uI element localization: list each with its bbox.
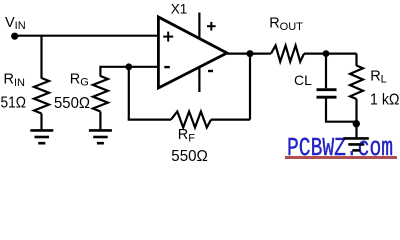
power plus sign xyxy=(207,22,216,31)
svg-text:ROUT: ROUT xyxy=(269,15,303,32)
node load junction dot xyxy=(353,120,360,127)
svg-text:RIN: RIN xyxy=(4,72,26,89)
svg-text:550Ω: 550Ω xyxy=(171,148,208,165)
capacitor CL top plate xyxy=(317,88,337,91)
watermark PCBWZ.com xyxy=(287,139,393,158)
svg-text:1 kΩ: 1 kΩ xyxy=(370,91,400,108)
op-amp X1 triangle xyxy=(158,17,227,88)
op-amp - input sign xyxy=(164,66,170,68)
resistor R_L xyxy=(350,66,363,100)
ground for R_IN xyxy=(30,130,53,143)
svg-text:CL: CL xyxy=(294,72,312,88)
wire R_OUT to load corner xyxy=(304,52,357,54)
power pin top xyxy=(198,13,200,39)
svg-text:550Ω: 550Ω xyxy=(54,95,90,112)
svg-text:RG: RG xyxy=(70,71,89,88)
svg-text:VIN: VIN xyxy=(5,15,26,32)
watermark red underline xyxy=(285,156,397,158)
wire feedback bottom left segment xyxy=(128,118,171,120)
wire CL top xyxy=(325,54,327,89)
svg-text:RF: RF xyxy=(178,127,195,144)
op-amp + input sign xyxy=(163,32,173,42)
power minus sign xyxy=(208,70,213,72)
resistor R_OUT xyxy=(271,46,304,62)
svg-text:51Ω: 51Ω xyxy=(1,94,27,111)
ground for load xyxy=(343,138,369,150)
resistor R_F xyxy=(171,112,211,128)
wire CL bottom xyxy=(326,99,356,122)
svg-text:RL: RL xyxy=(370,68,387,85)
resistor R_IN xyxy=(34,78,49,114)
node inverting input junction dot xyxy=(125,63,132,70)
wire to R_L top xyxy=(355,54,357,66)
wire feedback left vertical xyxy=(128,67,130,120)
capacitor CL bottom plate xyxy=(317,96,337,99)
wire R_IN top branch xyxy=(40,36,42,79)
node CL junction dot xyxy=(323,50,330,57)
power pin bottom xyxy=(198,67,200,93)
node output junction dot xyxy=(247,50,254,57)
wire R_IN bottom xyxy=(40,114,42,131)
wire feedback right vertical xyxy=(249,54,251,120)
wire R_G top corner xyxy=(100,67,158,77)
resistor R_G xyxy=(93,76,108,112)
wire R_G bottom xyxy=(99,112,101,131)
wire VIN to op-amp + input xyxy=(15,35,159,37)
ground for R_G xyxy=(89,130,112,143)
svg-text:X1: X1 xyxy=(171,1,188,16)
node VIN terminal dot xyxy=(11,33,18,40)
wire op-amp output xyxy=(227,52,271,54)
wire feedback bottom right segment xyxy=(211,118,250,120)
wire R_L bottom xyxy=(355,99,357,138)
